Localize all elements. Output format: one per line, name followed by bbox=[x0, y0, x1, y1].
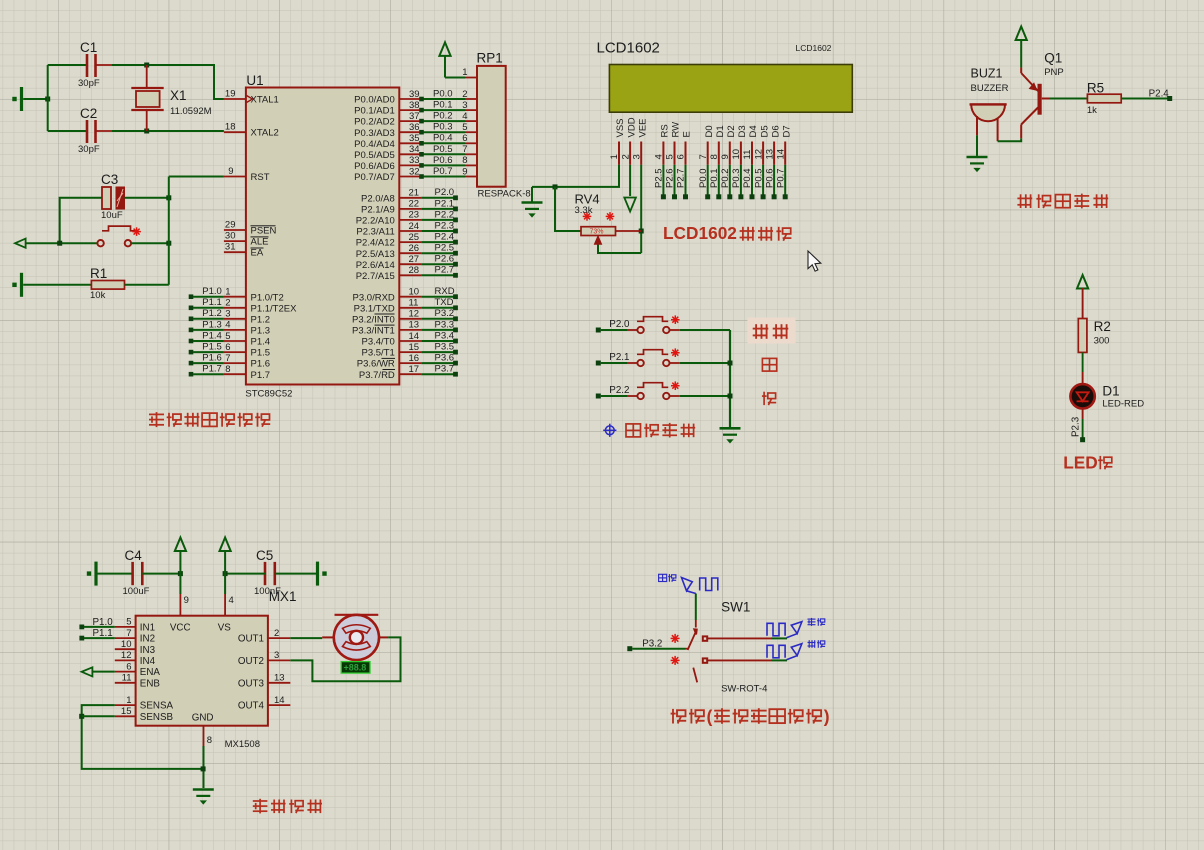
svg-text:P2.0/A8: P2.0/A8 bbox=[361, 193, 395, 204]
wire SENSB bbox=[82, 715, 115, 717]
svg-text:C3: C3 bbox=[101, 172, 118, 187]
svg-text:P0.4: P0.4 bbox=[433, 133, 453, 144]
svg-text:R5: R5 bbox=[1087, 80, 1104, 95]
svg-text:1: 1 bbox=[609, 154, 620, 159]
power arrow buzzer bbox=[1016, 27, 1027, 68]
ground (buzzer) bbox=[967, 156, 988, 159]
svg-text:P2.6: P2.6 bbox=[435, 254, 455, 265]
svg-text:PSEN: PSEN bbox=[251, 226, 277, 237]
svg-text:IN3: IN3 bbox=[140, 645, 156, 656]
junction VCC rail bbox=[178, 571, 183, 576]
junction VS rail bbox=[223, 571, 228, 576]
svg-text:MX1: MX1 bbox=[269, 589, 297, 604]
ground (C5) bbox=[316, 562, 319, 586]
svg-text:27: 27 bbox=[409, 254, 420, 265]
text set bbox=[748, 318, 796, 344]
svg-text:28: 28 bbox=[409, 265, 420, 276]
svg-text:P0.2: P0.2 bbox=[433, 111, 453, 122]
svg-text:P0.7/AD7: P0.7/AD7 bbox=[354, 172, 395, 183]
lcd pin numbers rotated bbox=[609, 149, 786, 160]
MX1 pin numbers bbox=[121, 617, 285, 717]
svg-text:29: 29 bbox=[225, 220, 236, 231]
svg-text:P2.4: P2.4 bbox=[435, 232, 455, 243]
svg-text:26: 26 bbox=[409, 243, 420, 254]
U1 P1 net wires and terminals bbox=[189, 286, 224, 376]
svg-text:8: 8 bbox=[207, 735, 212, 746]
svg-text:P2.5: P2.5 bbox=[435, 243, 455, 254]
net terminal P2.3 bbox=[1080, 437, 1085, 442]
svg-text:15: 15 bbox=[409, 342, 420, 353]
svg-text:P2.1: P2.1 bbox=[435, 198, 455, 209]
svg-text:36: 36 bbox=[409, 122, 420, 133]
wire power to RP1 pin1 bbox=[445, 77, 465, 79]
svg-text:P2.3: P2.3 bbox=[1070, 416, 1081, 437]
svg-text:300: 300 bbox=[1094, 336, 1110, 347]
motor MX1 load bbox=[322, 615, 388, 660]
svg-text:P2.4/A12: P2.4/A12 bbox=[356, 238, 395, 249]
svg-text:P1.7: P1.7 bbox=[251, 370, 271, 381]
push button key2 bbox=[637, 350, 670, 366]
clock generator low speed bbox=[767, 644, 802, 660]
svg-text:Q1: Q1 bbox=[1044, 51, 1062, 66]
svg-text:3: 3 bbox=[274, 650, 279, 661]
svg-text:19: 19 bbox=[225, 89, 236, 100]
svg-text:P0.4/AD4: P0.4/AD4 bbox=[354, 139, 395, 150]
ground (C4) bbox=[94, 562, 97, 586]
RP1 pin numbers 2-9 bbox=[462, 89, 467, 178]
capacitor C3 electrolytic bbox=[102, 187, 125, 209]
wire clock to SW1 common bbox=[695, 594, 697, 621]
svg-text:30: 30 bbox=[225, 231, 236, 242]
svg-text:14: 14 bbox=[775, 149, 786, 160]
net terminal P2.4 bbox=[1167, 96, 1172, 101]
svg-text:IN4: IN4 bbox=[140, 656, 156, 667]
svg-text:4: 4 bbox=[225, 320, 230, 331]
wire VS to MX1 pin4 bbox=[224, 574, 226, 594]
svg-text:D4: D4 bbox=[748, 125, 759, 137]
svg-text:OUT2: OUT2 bbox=[238, 656, 264, 667]
wire RV4 terminal2 bbox=[616, 230, 642, 232]
keys common bus wire bbox=[729, 330, 731, 427]
wires P2 net stubs bbox=[421, 187, 458, 277]
svg-text:P1.0/T2: P1.0/T2 bbox=[251, 292, 284, 303]
wire P3.2 to SW1 bbox=[632, 648, 685, 650]
svg-text:ENA: ENA bbox=[140, 667, 161, 678]
svg-text:30pF: 30pF bbox=[78, 78, 100, 89]
capacitor C1 bbox=[87, 54, 112, 77]
svg-text:(: ( bbox=[707, 707, 713, 727]
svg-text:R1: R1 bbox=[90, 266, 107, 281]
MX1 pin names bbox=[140, 623, 265, 724]
ground (R1) bbox=[20, 273, 23, 297]
push button key1 bbox=[637, 317, 670, 333]
svg-text:10: 10 bbox=[409, 287, 420, 298]
junction on cap rail bbox=[45, 97, 50, 102]
svg-text:P2.3: P2.3 bbox=[435, 220, 455, 231]
svg-text:14: 14 bbox=[409, 331, 420, 342]
svg-text:RS: RS bbox=[660, 124, 671, 137]
svg-text:5: 5 bbox=[126, 617, 131, 628]
svg-text:SW-ROT-4: SW-ROT-4 bbox=[721, 684, 767, 695]
wire key1 to bus bbox=[669, 329, 680, 331]
title MCU minimum system bbox=[149, 412, 270, 427]
wire RV4 terminal1 bbox=[555, 187, 581, 231]
svg-text:P3.2: P3.2 bbox=[435, 308, 455, 319]
U1 XTAL1 clock mark bbox=[247, 96, 253, 103]
RV4 wiper arrow bbox=[595, 237, 601, 245]
svg-text:7: 7 bbox=[126, 628, 131, 639]
svg-text:D5: D5 bbox=[759, 125, 770, 137]
svg-text:3: 3 bbox=[462, 100, 467, 111]
svg-text:P3.5/T1: P3.5/T1 bbox=[362, 348, 395, 359]
wire key3 to bus bbox=[669, 395, 680, 397]
svg-text:22: 22 bbox=[409, 199, 420, 210]
svg-text:EA: EA bbox=[251, 248, 264, 259]
svg-text:100uF: 100uF bbox=[123, 586, 150, 597]
lcd data net labels rotated bbox=[654, 168, 787, 188]
svg-text:9: 9 bbox=[720, 154, 731, 159]
svg-text:P1.0: P1.0 bbox=[202, 286, 222, 297]
svg-text:D7: D7 bbox=[781, 125, 792, 137]
svg-text:10k: 10k bbox=[90, 290, 106, 301]
svg-text:P3.7/RD: P3.7/RD bbox=[359, 370, 395, 381]
wire P2.1 to button bbox=[601, 362, 627, 364]
svg-text:TXD: TXD bbox=[435, 297, 454, 308]
svg-text:6: 6 bbox=[225, 342, 230, 353]
U1 left pin numbers bbox=[225, 89, 236, 376]
svg-text:8: 8 bbox=[225, 364, 230, 375]
wire key2 to bus bbox=[669, 362, 680, 364]
svg-text:13: 13 bbox=[409, 320, 420, 331]
wires P0 bus to RP1 bbox=[419, 88, 465, 178]
wire C3 left bbox=[60, 198, 102, 243]
svg-text:P2.6/A14: P2.6/A14 bbox=[356, 260, 395, 271]
clock generator mid speed bbox=[767, 622, 802, 638]
junction SENSB bbox=[79, 714, 84, 719]
svg-text:P3.3: P3.3 bbox=[435, 319, 455, 330]
svg-text:MX1508: MX1508 bbox=[225, 739, 260, 750]
wire OUT1 to motor bbox=[290, 637, 322, 639]
wire P2.0 to button bbox=[601, 329, 627, 331]
svg-text:VCC: VCC bbox=[170, 623, 191, 634]
U1 left pin stubs bbox=[224, 99, 246, 374]
svg-text:P2.4: P2.4 bbox=[1149, 89, 1170, 100]
wire RST to chip bbox=[169, 176, 224, 178]
lcd data wires and terminals bbox=[661, 165, 788, 200]
svg-text:P2.2/A10: P2.2/A10 bbox=[356, 216, 395, 227]
svg-text:13: 13 bbox=[274, 673, 285, 684]
ic U1 STC89C52 body bbox=[246, 88, 399, 385]
svg-text:2: 2 bbox=[462, 89, 467, 100]
svg-text:P3.3/INT1: P3.3/INT1 bbox=[352, 326, 395, 337]
svg-text:U1: U1 bbox=[246, 73, 263, 88]
wire buzzer left to ground bbox=[976, 135, 978, 156]
svg-text:VSS: VSS bbox=[615, 118, 626, 137]
svg-text:P3.4/T0: P3.4/T0 bbox=[362, 337, 395, 348]
wire C1 left bbox=[48, 64, 87, 66]
push button key3 bbox=[637, 383, 670, 399]
wire C3 right bbox=[125, 197, 169, 199]
ground (keys) bbox=[720, 427, 741, 430]
text minus bbox=[762, 392, 776, 405]
svg-text:4: 4 bbox=[654, 154, 665, 159]
svg-text:6: 6 bbox=[676, 154, 687, 159]
push button reset bbox=[97, 226, 138, 246]
wire R1 to RST rail bbox=[125, 284, 169, 286]
svg-text:13: 13 bbox=[764, 149, 775, 160]
svg-text:P1.1/T2EX: P1.1/T2EX bbox=[251, 303, 298, 314]
wire VCC to MX1 pin9 bbox=[179, 574, 181, 594]
svg-text:XTAL1: XTAL1 bbox=[251, 95, 279, 106]
resistor pack RP1 body bbox=[477, 66, 506, 187]
wire C1 to XTAL1 bbox=[112, 64, 147, 66]
label high speed bbox=[659, 574, 677, 582]
junction RST rail button bbox=[166, 241, 171, 246]
svg-text:P0.3: P0.3 bbox=[433, 122, 453, 133]
svg-text:30pF: 30pF bbox=[78, 144, 100, 155]
svg-text:LCD1602: LCD1602 bbox=[663, 223, 737, 243]
svg-text:P0.1/AD1: P0.1/AD1 bbox=[354, 106, 395, 117]
svg-text:33: 33 bbox=[409, 155, 420, 166]
svg-text:P3.7: P3.7 bbox=[435, 364, 455, 375]
svg-text:18: 18 bbox=[225, 122, 236, 133]
wire C5 to VS rail bbox=[225, 573, 265, 575]
svg-text:P0.0/AD0: P0.0/AD0 bbox=[354, 95, 395, 106]
svg-text:P1.2: P1.2 bbox=[202, 308, 222, 319]
wire R5 to P2.4 bbox=[1121, 98, 1170, 100]
svg-text:D1: D1 bbox=[715, 125, 726, 137]
svg-text:37: 37 bbox=[409, 111, 420, 122]
svg-text:LED: LED bbox=[1063, 452, 1098, 472]
svg-text:OUT3: OUT3 bbox=[238, 678, 265, 689]
svg-text:OUT4: OUT4 bbox=[238, 701, 265, 712]
wire buzzer right to Q1 collector bbox=[998, 138, 1022, 141]
svg-text:P3.5: P3.5 bbox=[435, 341, 455, 352]
svg-text:P2.0: P2.0 bbox=[609, 319, 630, 330]
svg-text:X1: X1 bbox=[170, 88, 187, 103]
svg-text:P2.1/A9: P2.1/A9 bbox=[361, 205, 395, 216]
ground (lcd VSS) bbox=[522, 201, 543, 204]
svg-text:): ) bbox=[824, 707, 830, 727]
svg-text:35: 35 bbox=[409, 133, 420, 144]
svg-text:1k: 1k bbox=[1087, 105, 1097, 116]
lcd pin names rotated bbox=[615, 117, 792, 137]
key2 state mark bbox=[671, 348, 680, 357]
junction RST net at C3 bbox=[166, 195, 171, 200]
wire ground to C4 bbox=[98, 573, 133, 575]
svg-text:D1: D1 bbox=[1102, 384, 1119, 399]
svg-text:D6: D6 bbox=[770, 125, 781, 137]
svg-text:3.3k: 3.3k bbox=[575, 205, 593, 216]
terminal arrow ENA bbox=[82, 667, 93, 676]
svg-text:P1.4: P1.4 bbox=[251, 337, 271, 348]
svg-text:P3.2/INT0: P3.2/INT0 bbox=[352, 314, 395, 325]
svg-text:P1.7: P1.7 bbox=[202, 364, 222, 375]
svg-text:9: 9 bbox=[228, 166, 233, 177]
svg-text:31: 31 bbox=[225, 242, 236, 253]
junction VSS-RV4 bbox=[553, 184, 558, 189]
svg-text:P2.7: P2.7 bbox=[435, 265, 455, 276]
svg-text:P0.0: P0.0 bbox=[433, 88, 453, 99]
svg-text:2: 2 bbox=[620, 154, 631, 159]
svg-text:3: 3 bbox=[225, 309, 230, 320]
text plus bbox=[762, 358, 776, 371]
junction bus key2 bbox=[728, 361, 733, 366]
svg-text:34: 34 bbox=[409, 144, 420, 155]
svg-text:P1.6: P1.6 bbox=[202, 353, 222, 364]
svg-text:P2.5/A13: P2.5/A13 bbox=[356, 249, 395, 260]
motor rpm readout bbox=[341, 662, 370, 674]
wire power to R2 bbox=[1082, 288, 1084, 319]
svg-text:+88.8: +88.8 bbox=[344, 663, 367, 673]
svg-text:SW1: SW1 bbox=[721, 600, 750, 615]
svg-text:7: 7 bbox=[462, 144, 467, 155]
svg-text:P3.6: P3.6 bbox=[435, 353, 455, 364]
U1 right pin names bbox=[352, 95, 395, 381]
ic MX1 MX1508 body bbox=[136, 616, 268, 726]
svg-text:16: 16 bbox=[409, 353, 420, 364]
svg-text:P2.2: P2.2 bbox=[609, 385, 629, 396]
svg-text:ALE: ALE bbox=[251, 237, 269, 248]
svg-text:12: 12 bbox=[409, 309, 420, 320]
capacitor C2 bbox=[87, 120, 112, 143]
svg-text:PNP: PNP bbox=[1044, 67, 1064, 78]
wire P2.2 to button bbox=[601, 395, 627, 397]
svg-text:9: 9 bbox=[462, 166, 467, 177]
power arrow RP1 bbox=[439, 42, 450, 77]
SW1 state marks bbox=[671, 634, 680, 665]
svg-text:17: 17 bbox=[409, 364, 420, 375]
svg-text:8: 8 bbox=[709, 154, 720, 159]
svg-text:11: 11 bbox=[122, 673, 132, 684]
wire OUT2 to motor loop bbox=[290, 637, 400, 681]
svg-text:7: 7 bbox=[225, 353, 230, 364]
svg-text:12: 12 bbox=[121, 650, 132, 661]
svg-text:SENSB: SENSB bbox=[140, 712, 174, 723]
wire arrow to ENA bbox=[92, 671, 114, 673]
svg-text:P2.1: P2.1 bbox=[609, 352, 629, 363]
svg-text:P0.6/AD6: P0.6/AD6 bbox=[354, 161, 395, 172]
svg-text:11.0592M: 11.0592M bbox=[170, 106, 212, 117]
svg-text:24: 24 bbox=[409, 221, 420, 232]
svg-text:IN2: IN2 bbox=[140, 634, 155, 645]
wire C4 to VCC rail bbox=[142, 573, 180, 575]
origin marker bbox=[603, 424, 616, 437]
svg-text:GND: GND bbox=[192, 712, 214, 723]
potentiometer RV4 body bbox=[581, 227, 616, 236]
svg-text:VEE: VEE bbox=[637, 118, 648, 137]
svg-text:32: 32 bbox=[409, 166, 420, 177]
svg-text:P3.1/TXD: P3.1/TXD bbox=[354, 303, 395, 314]
wire SW1 contact2 to clock mid bbox=[707, 637, 771, 639]
resistor R1 bbox=[91, 281, 124, 290]
svg-text:10: 10 bbox=[731, 149, 742, 160]
resistor R2 bbox=[1078, 319, 1087, 353]
wire ground to cap rail bbox=[23, 98, 48, 100]
title buzzer alarm bbox=[1017, 194, 1108, 209]
junction VEE-RV4 wiper net bbox=[639, 229, 644, 234]
power arrow VS bbox=[220, 538, 231, 574]
svg-text:VDD: VDD bbox=[626, 117, 637, 137]
svg-text:IN1: IN1 bbox=[140, 623, 155, 634]
svg-text:1: 1 bbox=[126, 695, 131, 706]
svg-text:E: E bbox=[682, 131, 693, 137]
svg-text:RXD: RXD bbox=[435, 286, 455, 297]
svg-text:21: 21 bbox=[409, 188, 420, 199]
wire SW1 contact3 to clock low bbox=[707, 659, 771, 661]
svg-text:RST: RST bbox=[251, 172, 270, 183]
U1 overlines PSEN ALE EA bbox=[251, 225, 276, 248]
svg-text:C1: C1 bbox=[80, 40, 97, 55]
svg-text:P0.1: P0.1 bbox=[433, 100, 453, 111]
title independent keys bbox=[626, 423, 695, 438]
power terminal down (VDD) bbox=[624, 198, 636, 212]
svg-text:P0.6: P0.6 bbox=[433, 155, 453, 166]
svg-text:BUZZER: BUZZER bbox=[971, 83, 1009, 94]
wire VSS to ground bbox=[532, 165, 619, 187]
svg-text:73%: 73% bbox=[590, 229, 604, 236]
svg-text:12: 12 bbox=[753, 149, 764, 160]
svg-text:R2: R2 bbox=[1094, 319, 1111, 334]
keys group bbox=[596, 315, 730, 399]
svg-text:9: 9 bbox=[184, 595, 189, 606]
RP1 pin1 stub bbox=[465, 77, 477, 79]
wires P3 net stubs bbox=[421, 286, 458, 376]
svg-text:LCD1602: LCD1602 bbox=[796, 43, 832, 53]
svg-text:STC89C52: STC89C52 bbox=[245, 389, 292, 400]
svg-text:P1.4: P1.4 bbox=[202, 330, 222, 341]
transistor Q1 PNP bbox=[1021, 68, 1050, 139]
RV4 state marks bbox=[583, 212, 615, 221]
svg-text:5: 5 bbox=[462, 122, 467, 133]
svg-text:3: 3 bbox=[631, 154, 642, 159]
svg-text:P0.5/AD5: P0.5/AD5 bbox=[354, 150, 395, 161]
svg-text:SENSA: SENSA bbox=[140, 701, 174, 712]
svg-text:P2.7/A15: P2.7/A15 bbox=[356, 271, 395, 282]
power arrow LED bbox=[1077, 275, 1088, 289]
svg-text:P3.4: P3.4 bbox=[435, 330, 455, 341]
button state mark bbox=[132, 227, 141, 236]
wire P1.1 to IN2 bbox=[84, 637, 115, 639]
capacitor C4 bbox=[133, 562, 143, 585]
capacitor C5 bbox=[265, 562, 275, 585]
svg-text:4: 4 bbox=[229, 595, 234, 606]
svg-text:P2.2: P2.2 bbox=[435, 209, 455, 220]
net terminal P2.1 bbox=[596, 361, 601, 366]
wire cap rail vertical bbox=[47, 65, 49, 131]
U1 left pin names bbox=[251, 95, 298, 381]
svg-text:P2.0: P2.0 bbox=[435, 187, 455, 198]
net terminal P2.0 bbox=[596, 328, 601, 333]
wire Q1 base to R5 bbox=[1050, 98, 1087, 100]
svg-text:11: 11 bbox=[742, 150, 753, 160]
wire C5 to ground bbox=[275, 573, 316, 575]
svg-text:OUT1: OUT1 bbox=[238, 634, 264, 645]
svg-text:8: 8 bbox=[462, 155, 467, 166]
wire C2 left bbox=[48, 130, 87, 132]
svg-text:P3.0/RXD: P3.0/RXD bbox=[353, 292, 395, 303]
svg-text:C5: C5 bbox=[256, 548, 273, 563]
wire D1 to P2.3 bbox=[1082, 409, 1084, 419]
svg-text:P1.5: P1.5 bbox=[251, 348, 271, 359]
junction gnd net bbox=[201, 766, 206, 771]
lcd pin stubs bbox=[619, 142, 785, 165]
clock generator high speed bbox=[682, 578, 718, 594]
wire R2 to D1 bbox=[1082, 352, 1084, 372]
svg-text:C2: C2 bbox=[80, 106, 97, 121]
mouse cursor bbox=[808, 251, 821, 271]
svg-text:P0.5: P0.5 bbox=[433, 144, 453, 155]
